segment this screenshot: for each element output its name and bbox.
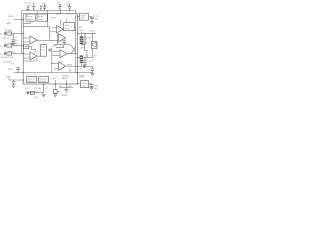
wire chain A vertical [43, 84, 45, 93]
capacitor C2 [32, 4, 35, 11]
block C gain [41, 45, 47, 57]
svg-text:DVDD: DVDD [66, 14, 72, 16]
ground chain B [53, 94, 57, 96]
capacitor C8 [4, 44, 7, 47]
wire mid vertical [57, 34, 59, 45]
svg-text:Supply: Supply [27, 19, 33, 21]
ground C15 [90, 21, 94, 23]
resistor R1 [7, 32, 12, 35]
capacitor C14 [27, 91, 28, 94]
wire chain A horizontal [26, 92, 44, 94]
capacitor C6 [4, 32, 7, 35]
wire chain C horizontal [59, 87, 73, 89]
wire OUT- line [78, 57, 93, 59]
op-amp U3B [59, 62, 66, 70]
svg-text:Protectn: Protectn [39, 80, 46, 83]
block G top right regulator [80, 13, 89, 20]
svg-text:R5: R5 [58, 91, 60, 93]
svg-text:PVDD: PVDD [51, 18, 57, 20]
wire mid horizontal [54, 44, 64, 46]
wire chain C vertical [65, 84, 67, 88]
svg-text:R4: R4 [35, 91, 37, 93]
wire third line [78, 65, 83, 67]
svg-text:VCLP: VCLP [80, 77, 86, 79]
capacitor C15 polarized [90, 17, 94, 22]
wire bus drop to block A [37, 11, 39, 15]
svg-text:GVDD: GVDD [8, 16, 14, 18]
resistor R5 [54, 89, 58, 93]
wire OUT+ line [78, 33, 97, 35]
op-amp U1A [30, 36, 37, 44]
resistor R4 [30, 91, 34, 94]
wire input row A [12, 33, 24, 35]
capacitor C1 [27, 5, 30, 10]
pin squares on IC edges [23, 16, 79, 85]
wire op3 in2 [50, 31, 57, 33]
svg-text:C14: C14 [34, 97, 37, 99]
capacitor C13 small [48, 49, 51, 52]
ground C21 [90, 88, 94, 90]
wire op1 input+ [23, 37, 30, 39]
svg-text:C16: C16 [88, 37, 91, 39]
capacitor C4 [59, 4, 62, 11]
resistor R3 [7, 52, 12, 55]
wire speaker bottom [92, 49, 94, 58]
IC outline U1 [23, 14, 77, 84]
wire cross diagonal 1 [71, 45, 76, 52]
svg-text:L1: L1 [80, 32, 82, 34]
svg-text:C19: C19 [79, 69, 82, 71]
wire op3 top feed [59, 20, 61, 26]
svg-text:PBTL: PBTL [8, 69, 13, 71]
wire op2 output [37, 55, 41, 57]
capacitor C12 internal [62, 40, 66, 45]
capacitor C21 [90, 84, 94, 88]
ground for C11 [12, 85, 16, 87]
wire GVDD pin [14, 19, 23, 21]
op-amp U2A [57, 26, 64, 34]
svg-text:GAIN: GAIN [6, 22, 11, 25]
svg-text:PWM: PWM [67, 64, 72, 66]
svg-text:C22: C22 [25, 88, 28, 90]
block H bottom right [81, 81, 89, 88]
svg-text:SDZ 10k: SDZ 10k [34, 88, 41, 90]
op-amp U1B [30, 52, 37, 60]
resistor R2 [7, 44, 12, 47]
wire op6 in [52, 63, 59, 65]
svg-text:AGND: AGND [63, 75, 69, 78]
wire mid drop [56, 45, 64, 48]
wire input row B [12, 45, 24, 47]
pin block left [24, 45, 29, 49]
svg-text:AVDD: AVDD [56, 13, 62, 16]
wire bottom internal bus [51, 66, 53, 72]
wire tick [69, 69, 71, 73]
svg-text:Gain: Gain [41, 47, 45, 49]
wire op1 output [37, 39, 50, 41]
wire chain B [54, 84, 56, 89]
wire cross diagonal 2 [71, 47, 76, 54]
block D PWM [64, 23, 75, 31]
capacitor C9 [4, 52, 7, 55]
svg-text:L 33µH: L 33µH [88, 31, 95, 33]
svg-text:Power: Power [27, 15, 33, 18]
svg-text:Gener.: Gener. [38, 18, 44, 21]
capacitor C17 [83, 58, 87, 65]
svg-text:CIN 1µF: CIN 1µF [2, 38, 10, 40]
wire op6 out [66, 65, 78, 67]
ferrite bead L2 [80, 55, 84, 63]
wire from pin block [29, 47, 36, 52]
svg-text:0.1µF: 0.1µF [27, 5, 33, 7]
capacitor C5 [68, 4, 71, 11]
wire op1 input- [23, 41, 30, 43]
speaker SP1 [91, 42, 97, 49]
ground chain C [64, 90, 68, 92]
wire bead2 bottom stub [80, 63, 82, 66]
top supply bus wire [22, 11, 76, 73]
wire from block A down [23, 21, 30, 23]
wire supply entry [9, 78, 23, 80]
wire bead top stub [80, 34, 82, 37]
wire bead bottom [81, 44, 87, 58]
wire to op4 [52, 51, 60, 53]
wire bus drop [59, 11, 61, 14]
capacitor C10 [16, 67, 20, 73]
pin block inner bar [25, 46, 28, 48]
wire op5 out [67, 53, 78, 55]
svg-text:LDO: LDO [81, 18, 85, 20]
capacitor C3a [40, 5, 42, 11]
svg-text:BSL: BSL [81, 48, 85, 50]
svg-text:BSL: BSL [79, 27, 83, 29]
wire bottom-left pin row [14, 72, 24, 74]
wire block D feed [66, 20, 68, 23]
svg-text:C17: C17 [85, 55, 88, 57]
svg-text:VREG: VREG [81, 15, 87, 17]
svg-text:Cap: Cap [82, 85, 85, 87]
op-amp U3A [60, 50, 67, 58]
block F bottom mid [39, 77, 49, 83]
op-amp U2B [59, 34, 66, 42]
svg-text:Referen: Referen [27, 80, 34, 83]
svg-text:Drive: Drive [65, 27, 69, 30]
svg-text:C10: C10 [11, 64, 14, 66]
wire pin stub FAULTZ [65, 80, 67, 84]
wire to block H [78, 83, 81, 85]
wire chain C drop [65, 88, 67, 90]
wire op3 in1 [52, 27, 57, 29]
capacitor C16 [83, 34, 87, 42]
capacitor C3 [43, 4, 46, 11]
wire internal rail drop [50, 27, 58, 41]
svg-text:C19: C19 [90, 61, 93, 63]
wire bus drop center [47, 11, 49, 27]
capacitor C19 series [83, 65, 85, 69]
junction dots on top bus [27, 10, 93, 73]
wire outer bottom bus [78, 72, 93, 74]
ground chain A [42, 94, 46, 96]
wire block H to cap [89, 83, 92, 85]
wire internal rail [23, 26, 50, 28]
wire block G to cap [89, 16, 93, 18]
block A regulator [26, 14, 35, 21]
ground for C7 [11, 44, 15, 46]
block E bottom left [27, 77, 37, 83]
svg-text:GND: GND [67, 86, 72, 88]
wire after C19 [85, 65, 92, 67]
capacitor C20 [90, 66, 94, 72]
svg-text:C18: C18 [93, 55, 96, 57]
wire op2 input- [23, 57, 30, 59]
svg-text:C9 1µF R7 10k: C9 1µF R7 10k [1, 57, 14, 59]
ground C16 [83, 42, 87, 44]
wire op2 input+ [23, 53, 30, 55]
svg-text:GVDD: GVDD [52, 45, 58, 47]
ground outer [90, 74, 94, 76]
speaker SP1 drop [92, 34, 94, 42]
wire op6 in2 [55, 67, 59, 69]
block B oscillator [37, 14, 47, 21]
ground C17 [83, 65, 87, 67]
wire mid extension [64, 44, 71, 46]
wire to op4 lower [52, 55, 60, 57]
svg-text:VBAT: VBAT [6, 75, 12, 78]
wire input row C [12, 53, 24, 55]
wire long vertical center [51, 48, 53, 66]
capacitor C7 shunt [11, 34, 15, 44]
svg-text:Gate: Gate [65, 24, 69, 27]
capacitor C11 polarized [12, 80, 16, 85]
svg-text:AGND: AGND [62, 94, 68, 97]
wire pin stub SDZ [54, 80, 56, 84]
ferrite bead L1 [80, 36, 84, 44]
svg-text:FAULTZ: FAULTZ [62, 77, 70, 80]
wire feedback [23, 59, 37, 61]
wire to block G [78, 16, 80, 18]
